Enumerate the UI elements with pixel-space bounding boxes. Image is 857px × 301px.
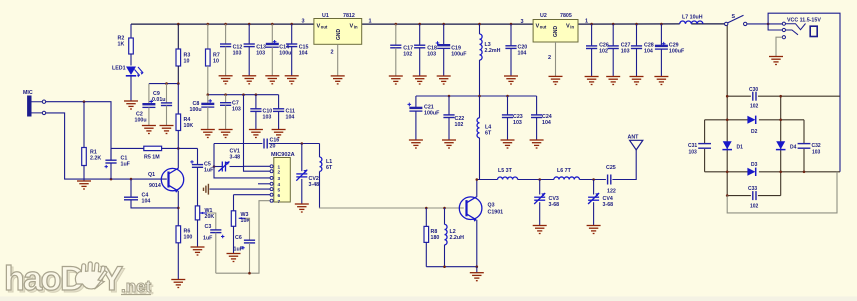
svg-text:103: 103: [232, 106, 241, 112]
capacitor C24 104: [536, 96, 538, 115]
wire: Q3 emitter lead: [476, 220, 478, 267]
svg-text:1uF: 1uF: [234, 247, 244, 253]
wire: audio-stage decoupling bus: [208, 94, 279, 96]
op-amp U1 7812 voltage regulator: [314, 19, 362, 45]
capacitor C32 103: [798, 144, 811, 149]
svg-text:104: 104: [299, 50, 308, 56]
node: rail junction dots: [177, 23, 180, 26]
ground (CV4): [587, 226, 601, 234]
resistor R7: [207, 24, 209, 49]
wire: Q3 emitter return: [426, 266, 477, 268]
svg-text:C1901: C1901: [488, 210, 504, 216]
ground (C9): [160, 126, 174, 134]
ground (C11): [272, 130, 286, 138]
ground (C19): [437, 76, 451, 84]
ground (U1 pin2): [331, 76, 345, 84]
svg-text:6T: 6T: [485, 130, 492, 136]
svg-text:9014: 9014: [149, 183, 161, 189]
capacitor C8 100u: [207, 95, 209, 104]
svg-text:7812: 7812: [343, 13, 355, 19]
wire: W3 wiper to C6: [246, 218, 250, 240]
ground (C7): [219, 130, 233, 138]
svg-text:1uF: 1uF: [204, 167, 214, 173]
svg-text:U1: U1: [322, 13, 329, 19]
svg-text:Q3: Q3: [488, 203, 495, 209]
svg-text:10: 10: [184, 58, 190, 64]
inductor L7 10uH: [680, 21, 703, 24]
ground (U2 pin2): [549, 76, 563, 84]
svg-text:2: 2: [278, 169, 281, 174]
ground (C14): [265, 76, 279, 84]
capacitor C10 103: [255, 95, 257, 109]
capacitor CV2 3-48 (trimmer): [301, 144, 303, 172]
svg-text:104: 104: [286, 114, 295, 120]
U3 pin 4: [270, 182, 273, 185]
wire: tank rail (right of C16): [269, 143, 320, 145]
wire: bridge input column (node B+): [726, 26, 728, 196]
inductor L5 3T: [498, 177, 518, 180]
wire: oscillator coupling rail (left of C16): [214, 143, 262, 145]
ground (C28): [630, 77, 644, 85]
ground (C2): [142, 126, 156, 134]
wire: CV1 to U3 pin2: [244, 166, 271, 171]
wire: bridge right side: [803, 120, 805, 143]
capacitor C4 104: [130, 179, 132, 197]
wire: Q1 collector lead: [177, 148, 179, 168]
svg-text:C6: C6: [235, 235, 242, 241]
ground (W1): [191, 247, 205, 255]
svg-text:2.2K: 2.2K: [90, 155, 101, 161]
capacitor C27: [612, 24, 614, 46]
svg-text:1: 1: [585, 19, 588, 25]
svg-text:122: 122: [607, 189, 616, 195]
svg-text:7805: 7805: [560, 13, 572, 19]
svg-text:Q1: Q1: [148, 172, 155, 178]
capacitor C17: [395, 24, 397, 45]
inductor L1 6T: [319, 144, 321, 158]
svg-text:in: in: [570, 25, 574, 30]
svg-text:102: 102: [403, 51, 412, 57]
U3 pin 6: [270, 193, 273, 196]
svg-text:2: 2: [548, 55, 551, 61]
capacitor CV4 3-68 (trimmer): [593, 180, 595, 195]
wire: jack sleeve to ground: [776, 37, 782, 56]
ground (C21): [409, 140, 423, 148]
svg-text:in: in: [354, 25, 358, 30]
svg-text:104: 104: [518, 50, 527, 56]
wire: bus tap to U3 pin1: [244, 95, 271, 167]
ground (C29): [654, 77, 668, 85]
svg-text:103: 103: [689, 150, 698, 156]
U3 pin 5: [270, 188, 273, 191]
resistor R2: [130, 24, 132, 38]
svg-text:3: 3: [278, 176, 281, 181]
capacitor C26: [591, 24, 593, 46]
connector J1 DC jack VCC 11.5-15V: [782, 22, 805, 39]
svg-text:C33: C33: [748, 186, 757, 192]
svg-text:GND: GND: [336, 29, 342, 41]
svg-text:C30: C30: [749, 87, 758, 93]
svg-text:C31: C31: [688, 143, 697, 149]
svg-text:180: 180: [431, 235, 440, 241]
capacitor C2 100u: [148, 84, 150, 105]
ground (U3 pin5, rotated): [204, 184, 209, 195]
ground (C18): [413, 76, 427, 84]
svg-text:5: 5: [278, 187, 281, 192]
svg-text:6: 6: [278, 193, 281, 198]
svg-text:out: out: [321, 25, 328, 30]
wire: U3 pin5 to bypass contact: [210, 188, 271, 190]
wire: node A vertical C1 top: [110, 148, 112, 160]
wire: C3/C6/pin7 return bus: [216, 201, 270, 274]
ground (C15): [285, 76, 299, 84]
ground (Q3): [470, 273, 484, 281]
wire: L1 to Q3 base: [320, 207, 464, 210]
wire: U3 pin4 stub: [258, 183, 270, 185]
wire: rail U1 to U2: [362, 23, 533, 25]
svg-text:D4: D4: [790, 145, 797, 151]
wire: bridge row B (top of square): [705, 119, 748, 121]
svg-text:100u: 100u: [279, 50, 291, 56]
svg-text:2.2mH: 2.2mH: [485, 48, 501, 54]
capacitor C9 0.01u: [166, 84, 168, 103]
svg-text:MIC902A: MIC902A: [271, 152, 295, 158]
wire: W1 wiper to C3: [207, 213, 216, 230]
svg-text:3-48: 3-48: [309, 182, 320, 188]
ground (W3): [227, 254, 241, 262]
ground (CV3): [533, 226, 547, 234]
wire: bridge bottom return (row F): [727, 172, 837, 213]
wire: Q1 emitter lead: [177, 191, 179, 226]
svg-text:S: S: [732, 14, 736, 20]
svg-text:20K: 20K: [205, 214, 215, 220]
resistor R5 1M: [144, 146, 162, 150]
inductor L2 2.2uH: [444, 208, 446, 224]
svg-text:0.01u: 0.01u: [152, 97, 166, 103]
svg-text:C25: C25: [606, 165, 616, 171]
potentiometer W3 10K: [233, 195, 235, 211]
ground (C12): [219, 76, 233, 84]
resistor R8 180: [425, 208, 427, 226]
switch S: [725, 22, 728, 25]
svg-text:R5 1M: R5 1M: [144, 155, 160, 161]
svg-text:3: 3: [302, 19, 305, 25]
ground (CV2): [295, 204, 309, 212]
svg-text:1uF: 1uF: [121, 161, 131, 167]
svg-text:D1: D1: [737, 145, 744, 151]
svg-text:L7 10uH: L7 10uH: [682, 15, 703, 21]
svg-text:haoD: haoD: [4, 260, 84, 298]
svg-text:100: 100: [184, 234, 193, 240]
svg-text:100u: 100u: [135, 118, 147, 124]
svg-text:104: 104: [542, 120, 551, 126]
wire: bridge row A: [727, 95, 751, 97]
antenna ANT: [630, 140, 643, 150]
capacitor C20: [510, 24, 512, 46]
capacitor CV1 3-48 (trimmer): [214, 166, 222, 168]
svg-text:1K: 1K: [118, 41, 125, 47]
svg-text:4: 4: [278, 182, 281, 187]
capacitor C28: [636, 24, 638, 46]
wire: +12V rail (top bus, left section): [131, 23, 314, 25]
capacitor C12: [225, 24, 227, 44]
svg-text:2: 2: [331, 50, 334, 56]
svg-text:102: 102: [750, 204, 759, 210]
capacitor C3 1uF: [210, 230, 221, 233]
inductor L3 2.2mH: [479, 24, 481, 34]
ground (C8): [201, 130, 215, 138]
resistor R1: [83, 102, 85, 148]
wire: Q3 collector lead: [476, 180, 478, 197]
ground (LED1): [124, 101, 138, 109]
ground (C24): [530, 140, 544, 148]
capacitor C29: [660, 24, 662, 46]
ground (C27): [606, 77, 620, 85]
svg-text:L5 3T: L5 3T: [498, 168, 513, 174]
svg-text:.net: .net: [121, 277, 152, 296]
ground (C20): [504, 76, 518, 84]
capacitor C21 100uF: [415, 96, 417, 108]
wire: W3 to U3 pin6: [234, 194, 271, 196]
wire: bridge right column: [780, 96, 782, 195]
resistor R6 100: [176, 226, 181, 243]
potentiometer W1 20K: [195, 206, 199, 220]
svg-text:7: 7: [278, 199, 281, 204]
ground (C17): [389, 76, 403, 84]
svg-text:out: out: [540, 25, 547, 30]
resistor R3: [177, 24, 179, 49]
wire: Q3 collector to L5: [477, 179, 498, 181]
capacitor C11 104: [278, 95, 280, 109]
svg-text:1uF: 1uF: [203, 236, 213, 242]
transistor Q3 C1901: [459, 197, 482, 220]
ground (C13): [242, 76, 256, 84]
ground (DC jack): [769, 57, 783, 65]
wire: Q1 collector node (R5 feedback rail): [111, 147, 198, 149]
ground (C22): [442, 140, 456, 148]
svg-text:20: 20: [270, 143, 276, 149]
ground (C26): [585, 77, 599, 85]
capacitor C14: [271, 24, 273, 44]
wire: jack middle contact link: [768, 24, 782, 30]
inductor L6 7T: [554, 177, 580, 180]
wire: C2/C9 decoupling bus: [149, 83, 178, 85]
wire: L6 to C25: [579, 179, 606, 181]
diode D2: [747, 116, 755, 124]
svg-text:3: 3: [521, 19, 524, 25]
svg-text:100uF: 100uF: [451, 51, 467, 57]
wire: RF +9V bus: [416, 95, 537, 97]
svg-text:3-68: 3-68: [549, 202, 560, 208]
svg-text:103: 103: [263, 114, 272, 120]
transistor Q1 9014: [161, 168, 183, 190]
diode D1: [723, 141, 732, 149]
U3 pin 7: [270, 199, 273, 202]
capacitor C25 122: [608, 175, 611, 185]
svg-text:100uF: 100uF: [669, 48, 685, 54]
capacitor C19: [443, 24, 445, 45]
svg-text:100u: 100u: [190, 107, 202, 113]
LED LED1: [126, 67, 136, 76]
capacitor C13: [248, 24, 250, 44]
svg-text:103: 103: [812, 150, 821, 156]
svg-text:6T: 6T: [326, 165, 333, 171]
svg-text:U2: U2: [540, 13, 547, 19]
capacitor C16 20: [264, 139, 267, 149]
wire: bridge row E: [727, 195, 751, 197]
wire: jack top feed: [768, 13, 840, 172]
svg-text:D3: D3: [751, 162, 758, 168]
svg-text:ANT: ANT: [628, 135, 640, 141]
svg-text:C3: C3: [205, 224, 212, 230]
resistor R4 10K: [177, 84, 179, 114]
svg-text:103: 103: [427, 51, 436, 57]
ground (R1): [77, 181, 91, 189]
U3 pin 2: [270, 170, 273, 173]
svg-text:10K: 10K: [184, 123, 194, 129]
ground (C23): [501, 140, 515, 148]
svg-text:103: 103: [513, 120, 522, 126]
svg-text:2.2uH: 2.2uH: [450, 235, 465, 241]
wire: C16 node down to U3 pin3: [214, 144, 270, 178]
svg-text:102: 102: [599, 48, 608, 54]
svg-text:3-48: 3-48: [230, 154, 241, 160]
svg-text:D2: D2: [751, 129, 758, 135]
svg-text:102: 102: [455, 122, 464, 128]
wire: bridge left side: [704, 120, 706, 143]
svg-text:VCC 11.5-15V: VCC 11.5-15V: [787, 18, 821, 24]
svg-text:103: 103: [621, 48, 630, 54]
capacitor C6 1uF: [244, 240, 255, 243]
capacitor C5 1uF: [197, 148, 199, 164]
capacitor C31 103: [698, 144, 711, 149]
capacitor C33 102: [753, 191, 756, 200]
ground (R6/Q1 emitter): [171, 280, 185, 288]
capacitor C15: [291, 24, 293, 44]
capacitor C7 103: [225, 95, 227, 103]
wire: mic top contact to C1: [46, 102, 111, 161]
diode D3: [747, 168, 755, 176]
wire: bridge row D (bottom of square): [705, 171, 748, 173]
op-amp U2 7805 voltage regulator: [533, 20, 578, 43]
svg-text:C32: C32: [812, 143, 821, 149]
op-amp U3 MIC902A: [274, 158, 291, 203]
svg-text:103: 103: [233, 50, 242, 56]
ground (C10): [249, 130, 263, 138]
wire: L5 to L6: [518, 179, 554, 181]
svg-text:104: 104: [142, 198, 151, 204]
capacitor CV3 3-68 (trimmer): [539, 180, 541, 195]
capacitor C18: [419, 24, 421, 45]
svg-text:10: 10: [213, 58, 219, 64]
capacitor C30 102: [753, 92, 756, 101]
svg-text:LED1: LED1: [112, 66, 126, 72]
svg-text:103: 103: [256, 50, 265, 56]
svg-text:L6 7T: L6 7T: [557, 168, 572, 174]
U1 pin2 lead + label: [337, 44, 339, 76]
svg-text:3-68: 3-68: [603, 202, 614, 208]
U2 pin2 lead + label: [555, 42, 557, 76]
svg-text:102: 102: [750, 104, 759, 110]
U3 pin 1: [270, 165, 273, 168]
svg-text:100uF: 100uF: [424, 110, 440, 116]
capacitor C1 1uF: [105, 160, 116, 163]
capacitor C23 103: [507, 96, 509, 115]
wire: rail U2 to L7: [578, 23, 680, 25]
wire: mic bottom contact to Q1 base: [46, 113, 167, 179]
wire: rail L7 to switch: [691, 23, 724, 25]
U3 pin 3: [270, 176, 273, 179]
svg-text:1: 1: [369, 19, 372, 25]
svg-text:GND: GND: [553, 26, 559, 38]
svg-text:104: 104: [644, 48, 653, 54]
diode D4: [776, 141, 785, 149]
watermark haoDY.net (decorative): [4, 260, 154, 300]
inductor L4 6T: [479, 96, 481, 118]
capacitor C22 102: [448, 96, 450, 115]
wire: C25 to antenna: [612, 150, 636, 180]
wire: switch to jack: [747, 23, 782, 25]
svg-text:MIC: MIC: [23, 90, 33, 96]
